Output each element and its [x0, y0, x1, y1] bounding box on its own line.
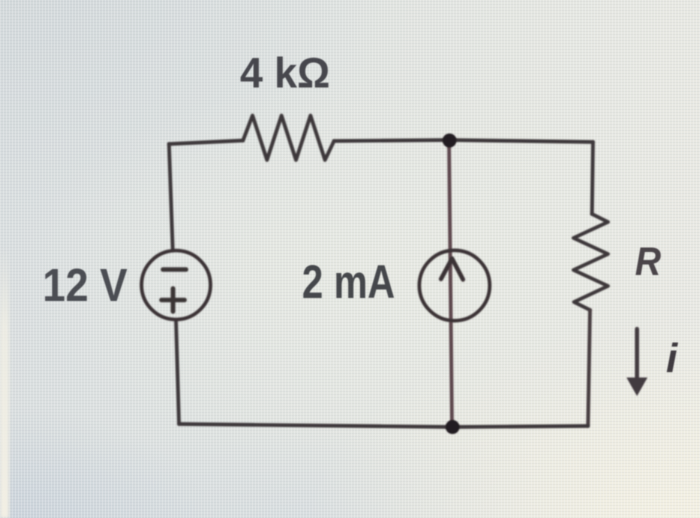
current i arrow shaft [635, 329, 639, 381]
wire right vertical above resistor R [592, 142, 593, 214]
voltage source plus sign [162, 289, 185, 312]
svg-text:12 V: 12 V [43, 259, 128, 311]
node bottom junction dot [446, 420, 460, 434]
wire left vertical above voltage source [169, 144, 173, 249]
voltage source V1 circle [142, 251, 211, 320]
svg-text:R: R [635, 240, 661, 284]
wire from resistor to top node [334, 140, 449, 141]
wire bottom-left segment [179, 424, 452, 427]
wire left vertical below voltage source [176, 322, 179, 425]
svg-text:4 kΩ: 4 kΩ [240, 50, 330, 98]
wire bottom-right segment [452, 426, 588, 427]
current source I1 circle [419, 250, 489, 320]
wire top-left horizontal segment [169, 141, 243, 145]
svg-text:i: i [666, 335, 679, 381]
voltage source minus sign [163, 267, 186, 272]
node top junction dot [443, 134, 457, 148]
svg-text:2 mA: 2 mA [302, 255, 395, 308]
resistor R zigzag [574, 214, 609, 310]
resistor R1 4 kOhm zigzag [243, 116, 334, 161]
wire right vertical below resistor R [588, 310, 590, 426]
current i arrow head [627, 378, 648, 397]
wire top node to top-right corner [449, 140, 593, 142]
wire middle branch through current source [449, 140, 452, 427]
current source arrow head [441, 259, 463, 280]
